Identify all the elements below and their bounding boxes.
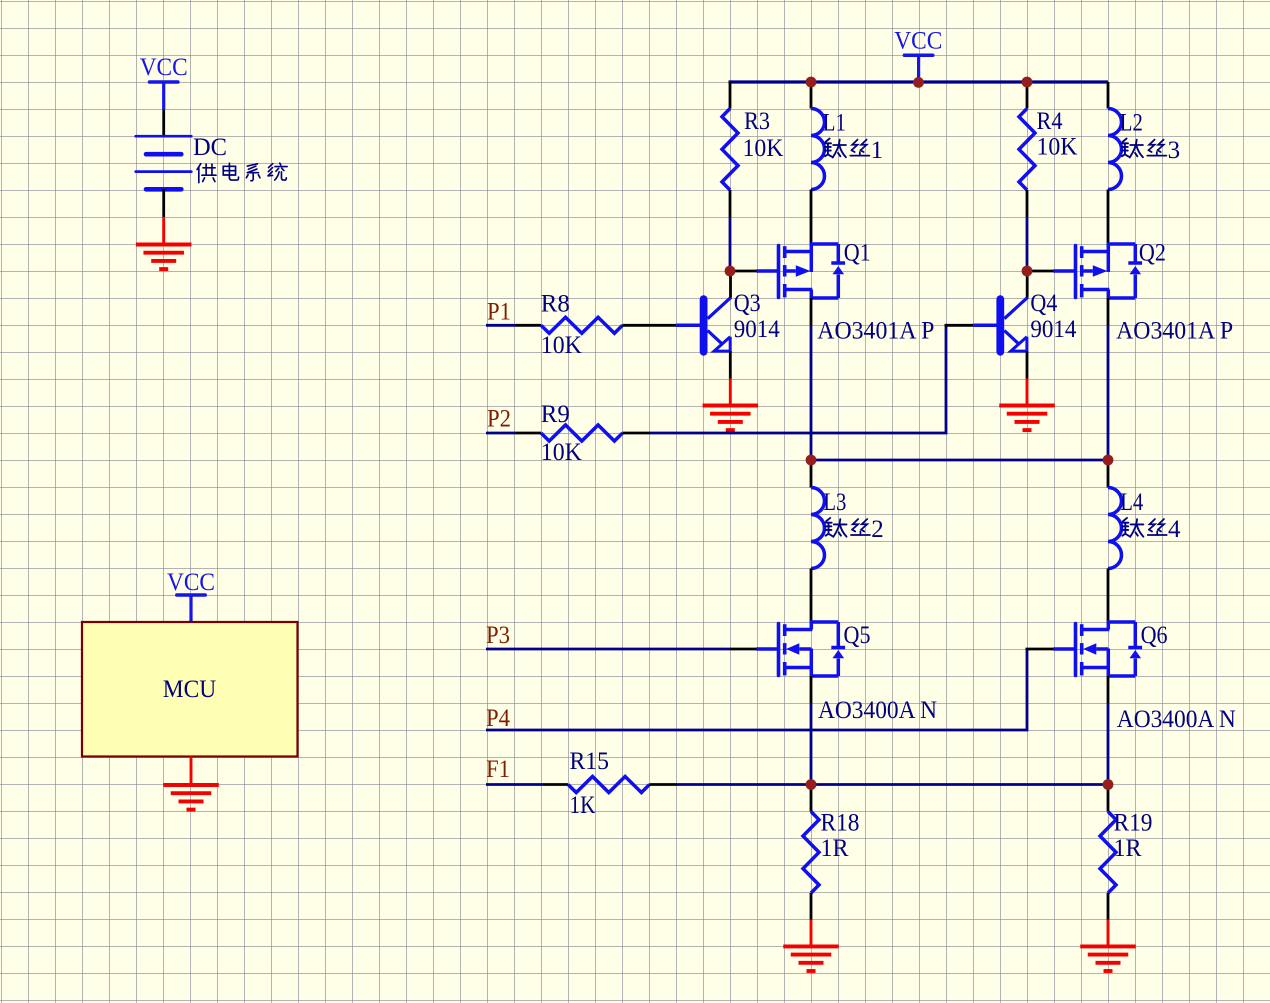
MCU block U? xyxy=(82,622,298,757)
svg-text:Q3: Q3 xyxy=(734,290,761,317)
junction on bus at L1 xyxy=(806,77,817,88)
label 钛丝2 xyxy=(825,516,883,543)
resistor R4 xyxy=(1019,109,1035,191)
resistor R8 xyxy=(541,317,623,333)
svg-text:R4: R4 xyxy=(1037,108,1063,135)
wire R3 bottom pin xyxy=(729,190,732,217)
ground (Q3 emitter) xyxy=(703,379,759,431)
svg-text:1R: 1R xyxy=(1114,835,1142,862)
wire L1 top pin xyxy=(810,82,813,109)
svg-text:AO3401A P: AO3401A P xyxy=(817,317,934,344)
junction middle rail left xyxy=(806,455,817,466)
svg-text:L2: L2 xyxy=(1120,110,1143,137)
svg-text:AO3401A P: AO3401A P xyxy=(1116,317,1233,344)
svg-text:DC: DC xyxy=(193,134,227,161)
svg-text:R19: R19 xyxy=(1114,810,1153,837)
label 钛丝3 xyxy=(1122,137,1180,164)
wire L3 to Q5 drain xyxy=(810,569,813,623)
wire battery top pin xyxy=(162,110,165,136)
wire L3 top pin xyxy=(810,460,813,488)
wire R15 right pin xyxy=(650,783,677,786)
svg-text:2: 2 xyxy=(871,516,884,543)
svg-text:AO3400A N: AO3400A N xyxy=(818,697,937,724)
ground (R18) xyxy=(783,920,839,972)
wire R19 top pin xyxy=(1107,785,1110,812)
wire P4 to Q6 gate corner xyxy=(486,649,1027,730)
svg-text:1R: 1R xyxy=(821,835,849,862)
wire P2 to Q4 base corner xyxy=(650,325,947,433)
transistor Q4 (9014 NPN) xyxy=(1000,297,1028,352)
svg-text:VCC: VCC xyxy=(894,28,942,55)
svg-text:R3: R3 xyxy=(744,108,770,135)
ground (MCU) xyxy=(163,757,219,810)
power VCC (bus) xyxy=(894,28,942,81)
svg-text:Q6: Q6 xyxy=(1141,622,1168,649)
wire L4 top pin xyxy=(1107,460,1110,488)
svg-text:10K: 10K xyxy=(1037,134,1078,161)
svg-text:P1: P1 xyxy=(487,298,511,325)
resistor R18 xyxy=(803,812,819,894)
wire battery bottom pin xyxy=(162,189,165,217)
wire F1 rail xyxy=(677,783,1109,786)
wire R18 top pin xyxy=(810,785,813,812)
transistor Q1 (AO3401A P-MOSFET) xyxy=(779,244,846,298)
wire Q4 base pin xyxy=(945,324,974,327)
svg-text:VCC: VCC xyxy=(140,54,188,81)
svg-text:9014: 9014 xyxy=(734,316,780,343)
svg-text:10K: 10K xyxy=(541,332,582,359)
label 供电系统 xyxy=(197,163,287,183)
wire R4 to node xyxy=(1026,217,1029,271)
svg-text:R9: R9 xyxy=(541,401,570,428)
transistor Q6 (AO3400A N-MOSFET) xyxy=(1076,622,1143,676)
svg-text:10K: 10K xyxy=(541,439,582,466)
ground (battery) xyxy=(136,217,192,269)
wire Q4 emitter down xyxy=(1026,351,1029,379)
svg-text:MCU: MCU xyxy=(163,676,217,703)
junction middle rail right xyxy=(1103,455,1114,466)
svg-text:L1: L1 xyxy=(823,110,846,137)
svg-text:4: 4 xyxy=(1168,516,1181,543)
svg-text:AO3400A N: AO3400A N xyxy=(1117,706,1236,733)
wire Q1 source down xyxy=(810,298,813,325)
wire R15 left pin xyxy=(543,783,568,786)
transistor Q3 (9014 NPN) xyxy=(704,297,732,352)
svg-text:R18: R18 xyxy=(821,810,860,837)
wire L4 to Q6 drain xyxy=(1107,569,1110,623)
wire P3 to Q5 gate xyxy=(486,648,730,651)
svg-text:P2: P2 xyxy=(487,406,511,433)
transistor Q2 (AO3401A P-MOSFET) xyxy=(1076,244,1143,298)
wire L2 top pin xyxy=(1107,82,1110,109)
wire Q5 source down xyxy=(810,676,813,703)
junction F1 rail right xyxy=(1103,779,1114,790)
inductor L2 xyxy=(1108,109,1122,190)
label 钛丝1 xyxy=(825,137,883,164)
svg-text:10K: 10K xyxy=(743,135,784,162)
wire R9 left pin xyxy=(516,432,541,435)
wire R4 top pin xyxy=(1026,82,1029,109)
wire Q3 emitter down xyxy=(729,351,732,379)
svg-text:Q5: Q5 xyxy=(844,622,871,649)
node at Q2 gate / R4 / Q4 collector xyxy=(1022,266,1033,277)
wire Q3 collector xyxy=(729,271,732,298)
wire R19 bottom pin xyxy=(1107,893,1110,920)
svg-text:1K: 1K xyxy=(570,792,596,819)
resistor R9 xyxy=(541,425,623,441)
junction F1 rail left xyxy=(806,779,817,790)
svg-text:F1: F1 xyxy=(486,756,510,783)
svg-text:P4: P4 xyxy=(486,705,510,732)
power VCC (battery supply) xyxy=(140,54,188,110)
wire VCC bus xyxy=(729,80,1109,83)
wire R4 bottom pin xyxy=(1026,190,1029,217)
svg-text:9014: 9014 xyxy=(1030,316,1076,343)
wire L1 to Q1 drain xyxy=(810,190,813,245)
ground (R19) xyxy=(1080,920,1136,972)
wire R9 right pin xyxy=(623,432,650,435)
svg-text:Q1: Q1 xyxy=(844,239,871,266)
wire Q6 gate pin xyxy=(1026,648,1054,651)
ground (Q4 emitter) xyxy=(999,379,1055,431)
svg-text:L3: L3 xyxy=(823,489,846,516)
resistor R15 xyxy=(568,777,650,793)
svg-text:3: 3 xyxy=(1168,137,1181,164)
resistor R19 xyxy=(1100,812,1116,894)
wire R8 right pin to Q3 base xyxy=(623,324,677,327)
node at Q1 gate / R3 / Q3 collector xyxy=(725,266,736,277)
svg-text:Q4: Q4 xyxy=(1030,290,1057,317)
svg-text:1: 1 xyxy=(871,137,884,164)
battery DC (供电系统) xyxy=(136,136,192,189)
svg-text:R15: R15 xyxy=(570,748,610,775)
svg-text:VCC: VCC xyxy=(167,569,215,596)
wire R3 to node xyxy=(729,217,732,271)
svg-text:L4: L4 xyxy=(1120,489,1143,516)
svg-text:R8: R8 xyxy=(541,290,570,317)
wire Q4 collector xyxy=(1026,271,1029,298)
inductor L3 xyxy=(811,488,825,569)
wire gate Q1 xyxy=(730,270,757,273)
svg-text:P3: P3 xyxy=(486,622,510,649)
wire Q6 source down xyxy=(1107,676,1110,703)
label 钛丝4 xyxy=(1122,516,1181,543)
power VCC (MCU) xyxy=(167,569,215,622)
wire middle rail xyxy=(811,459,1108,462)
inductor L4 xyxy=(1108,488,1122,569)
inductor L1 xyxy=(811,109,825,190)
svg-text:Q2: Q2 xyxy=(1139,240,1166,267)
wire R8 left pin xyxy=(516,324,541,327)
wire P2 xyxy=(486,432,516,435)
junction on bus at R4 xyxy=(1022,77,1033,88)
wire F1 xyxy=(486,783,543,786)
resistor R3 xyxy=(722,109,738,191)
wire Q2 source down xyxy=(1107,298,1110,325)
wire R3 top pin xyxy=(729,82,732,109)
wire R18 bottom pin xyxy=(810,893,813,920)
transistor Q5 (AO3400A N-MOSFET) xyxy=(779,622,846,676)
wire gate Q2 xyxy=(1027,270,1054,273)
junction on bus at VCC xyxy=(913,77,924,88)
wire P1 xyxy=(486,324,516,327)
wire L2 to Q2 drain xyxy=(1107,190,1110,245)
